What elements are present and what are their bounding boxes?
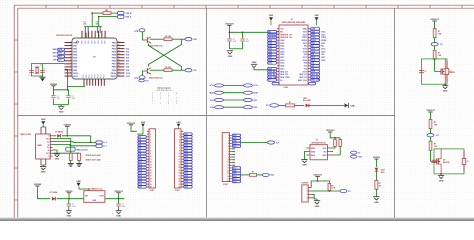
svg-text:7: 7: [228, 151, 229, 153]
svg-text:FB1: FB1: [105, 10, 108, 12]
svg-text:PC5: PC5: [95, 75, 97, 79]
wire loop: [434, 149, 464, 174]
svg-text:DTR RTS -EN IO0: DTR RTS -EN IO0: [157, 90, 172, 92]
svg-text:16: 16: [178, 173, 180, 175]
svg-text:IO22: IO22: [303, 34, 307, 36]
svg-text:GND: GND: [55, 159, 60, 161]
svg-text:SHD_CLK: SHD_CLK: [311, 80, 320, 82]
svg-text:D+: D+: [47, 147, 49, 149]
svg-text:IO?: IO?: [440, 44, 443, 46]
svg-text:C3: C3: [84, 21, 86, 23]
svg-text:IO5: IO5: [304, 54, 307, 56]
svg-text:X?: X?: [40, 65, 42, 67]
svg-text:SHD_D2: SHD_D2: [280, 71, 287, 73]
svg-text:SHD_CLK: SHD_CLK: [298, 80, 308, 82]
svg-text:IO21: IO21: [210, 100, 214, 102]
svg-text:IO23: IO23: [303, 31, 307, 33]
MCU bottom pins: [83, 79, 85, 86]
svg-text:11: 11: [150, 159, 152, 161]
svg-text:GND: GND: [314, 15, 319, 17]
svg-text:GND: GND: [443, 91, 448, 93]
svg-text:12: 12: [227, 165, 229, 167]
svg-text:27: 27: [118, 69, 120, 71]
capacitor C5: [227, 38, 231, 40]
svg-text:18: 18: [178, 178, 180, 180]
svg-text:C5: C5: [233, 39, 235, 41]
svg-text:PA11: PA11: [73, 75, 79, 78]
wire gnd rail: [53, 104, 68, 106]
ground: [373, 196, 379, 198]
svg-text:GND: GND: [76, 181, 81, 183]
svg-text:C2: C2: [72, 96, 74, 98]
ground: [440, 174, 442, 176]
out wire: [105, 198, 125, 200]
net flag IO4: [267, 141, 275, 144]
svg-text:11: 11: [70, 72, 72, 74]
capacitor C7: [68, 199, 70, 204]
svg-text:IO35: IO35: [280, 43, 284, 45]
capacitor C4: [96, 27, 98, 33]
svg-text:10: 10: [178, 156, 180, 158]
load on right edge: [446, 61, 448, 82]
svg-text:IO21: IO21: [253, 100, 257, 102]
wire gnd rail: [229, 48, 242, 50]
svg-text:20: 20: [150, 184, 152, 186]
svg-text:U? AMS1117-3.3: U? AMS1117-3.3: [89, 188, 103, 191]
svg-text:35: 35: [118, 44, 120, 46]
net flag: [262, 173, 269, 176]
svg-text:IO21: IO21: [303, 43, 307, 45]
svg-text:18: 18: [227, 181, 229, 183]
svg-text:R5 12K: R5 12K: [165, 36, 172, 38]
svg-text:12: 12: [70, 75, 72, 77]
svg-text:SENSOR_VN: SENSOR_VN: [280, 37, 292, 39]
crystal Y1: [36, 68, 38, 73]
svg-text:IO21: IO21: [321, 43, 325, 45]
resistor R12: [78, 153, 81, 160]
svg-text:IO33: IO33: [280, 49, 284, 51]
svg-text:17: 17: [227, 179, 229, 181]
svg-text:USB_D-: USB_D-: [125, 17, 132, 19]
svg-text:IO18: IO18: [303, 51, 307, 53]
svg-text:CC1: CC1: [46, 139, 50, 141]
svg-text:D- 2: D- 2: [103, 146, 106, 148]
svg-text:GND: GND: [228, 56, 233, 58]
svg-text:18: 18: [150, 178, 152, 180]
MCU left net flags: [58, 48, 65, 51]
svg-text:32: 32: [118, 54, 120, 56]
svg-text:D? SS54: D? SS54: [50, 191, 57, 194]
resistor R10: [375, 180, 378, 189]
sheet frame: [14, 4, 474, 6]
svg-text:GND: GND: [303, 29, 308, 31]
svg-text:C6: C6: [246, 39, 248, 41]
LED3: [375, 168, 379, 171]
svg-text:CON?: CON?: [223, 184, 228, 186]
svg-text:29: 29: [118, 63, 120, 65]
ground: [66, 210, 72, 212]
LED row: net flag: [270, 104, 279, 107]
svg-text:IO16: IO16: [321, 60, 325, 62]
svg-text:C1: C1: [57, 96, 59, 98]
net flags USB D+ D-: [118, 12, 125, 15]
svg-text:VOUT: VOUT: [99, 196, 103, 198]
svg-text:10uF: 10uF: [233, 41, 237, 43]
svg-text:GND: GND: [315, 206, 320, 208]
svg-text:12: 12: [178, 162, 180, 164]
svg-text:GND: GND: [311, 151, 316, 153]
svg-text:USB-C16-PIN: USB-C16-PIN: [20, 134, 31, 136]
svg-text:CON?: CON?: [175, 190, 180, 192]
svg-text:16: 16: [227, 176, 229, 178]
resistor: [433, 50, 436, 59]
svg-text:GND: GND: [66, 216, 71, 218]
wire 3v3 rail: [228, 25, 230, 38]
net flag EN: [185, 38, 192, 41]
svg-text:IO22: IO22: [321, 34, 325, 36]
svg-text:SDA: SDA: [311, 154, 316, 157]
wire to gnd: [309, 104, 344, 106]
svg-text:5: 5: [228, 146, 229, 148]
resistor: [429, 120, 432, 129]
svg-text:IO25: IO25: [280, 51, 284, 53]
svg-text:15: 15: [150, 170, 152, 172]
svg-text:IO18: IO18: [321, 51, 325, 53]
wires D+/D-: [90, 136, 92, 143]
svg-text:19: 19: [150, 181, 152, 183]
svg-text:IO22: IO22: [253, 107, 257, 109]
svg-text:GND: GND: [350, 105, 355, 107]
svg-text:BSS138: BSS138: [443, 162, 449, 164]
wire VDD top: [92, 12, 103, 14]
svg-text:10: 10: [227, 159, 229, 161]
connector CON2 4P: [302, 185, 308, 202]
svg-text:PC6: PC6: [86, 75, 88, 79]
svg-text:IO6: IO6: [126, 61, 129, 63]
svg-text:20: 20: [178, 184, 180, 186]
ground: [227, 50, 233, 52]
svg-text:21: 21: [150, 187, 152, 189]
net flag right of MCU: [139, 79, 145, 82]
resistor R5: [150, 38, 164, 40]
svg-text:SENSOR_VP: SENSOR_VP: [280, 34, 292, 36]
svg-text:3: 3: [228, 140, 229, 142]
svg-text:PC4: PC4: [103, 75, 105, 79]
svg-text:GND: GND: [302, 165, 307, 167]
svg-text:8: 8: [228, 154, 229, 156]
svg-text:CON?: CON?: [150, 190, 155, 192]
capacitor CL1: [29, 70, 34, 72]
svg-text:CON?4P: CON?4P: [302, 182, 310, 185]
ground: [305, 152, 307, 160]
svg-text:VDD: VDD: [311, 148, 316, 150]
svg-text:IO16: IO16: [303, 60, 307, 62]
svg-text:10: 10: [150, 156, 152, 158]
MOSFET Q: [440, 68, 442, 74]
svg-text:SDA1: SDA1: [253, 92, 258, 95]
svg-text:2: 2: [228, 138, 229, 140]
svg-text:IO17: IO17: [321, 57, 325, 59]
svg-text:D+: D+: [47, 141, 49, 143]
svg-text:11: 11: [179, 159, 181, 161]
MCU U2 GD32F103 QFP: [72, 38, 117, 79]
ground mid: [252, 66, 256, 68]
svg-text:11: 11: [227, 162, 229, 164]
wire pin row to rail: [65, 69, 68, 90]
resistor Ra: [334, 140, 337, 147]
svg-text:IO35: IO35: [270, 175, 274, 177]
svg-text:15: 15: [178, 170, 180, 172]
svg-text:IO26: IO26: [280, 54, 284, 56]
svg-text:PC2: PC2: [92, 75, 94, 79]
ground: [58, 105, 64, 107]
svg-text:IO32: IO32: [280, 46, 284, 48]
svg-text:RXD0: RXD0: [302, 40, 307, 42]
section dividers: [206, 8, 208, 219]
MOSFET Q: [436, 158, 438, 164]
wires: [317, 177, 319, 182]
svg-text:25: 25: [118, 75, 120, 77]
svg-text:6: 6: [228, 149, 229, 151]
connector CON1 18P: [222, 133, 229, 182]
svg-text:IO15: IO15: [303, 71, 307, 73]
svg-text:RXD0: RXD0: [321, 40, 326, 42]
svg-text:IO12: IO12: [280, 63, 284, 65]
svg-text:36: 36: [118, 41, 120, 43]
svg-text:IO23: IO23: [321, 31, 325, 33]
svg-text:IO33: IO33: [233, 146, 237, 148]
ferrite bead FB1: [103, 12, 111, 15]
wire long net: [241, 142, 268, 144]
svg-text:C?: C?: [122, 204, 124, 206]
resistor Rb: [339, 140, 342, 147]
svg-text:IO0: IO0: [304, 66, 307, 68]
svg-text:U?: U?: [316, 140, 318, 142]
svg-text:D+ 2: D+ 2: [103, 142, 107, 144]
svg-text:15: 15: [227, 173, 229, 175]
svg-text:IO10: IO10: [126, 73, 130, 75]
svg-text:IO3: IO3: [126, 51, 129, 53]
transistor Q1: [146, 37, 148, 43]
svg-text:3V3: 3V3: [280, 29, 283, 31]
svg-text:BT0: BT0: [53, 60, 56, 62]
wires pullups: [330, 132, 340, 138]
wire pin2 to flag: [311, 190, 340, 192]
wire: [37, 186, 50, 199]
svg-text:GND: GND: [252, 62, 257, 64]
svg-text:10uF: 10uF: [72, 206, 76, 208]
svg-text:19: 19: [178, 181, 180, 183]
svg-text:IO0: IO0: [194, 70, 197, 72]
ESP32 bottom pads: [272, 82, 279, 85]
sensor U4 AHT20: [310, 145, 327, 160]
svg-text:33: 33: [118, 50, 120, 52]
capacitor: [419, 69, 424, 71]
ground tri 2: [76, 163, 82, 165]
svg-text:0603: 0603: [381, 172, 385, 174]
svg-text:GND: GND: [269, 15, 274, 17]
svg-text:1 GND: 1 GND: [283, 87, 289, 89]
svg-text:Auto program: Auto program: [157, 87, 170, 90]
svg-text:IO17: IO17: [303, 57, 307, 59]
ground: [444, 84, 446, 86]
resistor R9: [328, 183, 331, 190]
svg-text:PC9: PC9: [89, 75, 91, 79]
svg-text:C?: C?: [29, 75, 31, 77]
svg-text:C?: C?: [72, 204, 74, 206]
svg-text:SDA1: SDA1: [209, 92, 214, 95]
svg-text:10uF: 10uF: [122, 206, 126, 208]
ESD array: [66, 147, 75, 151]
svg-text:17: 17: [150, 175, 152, 177]
svg-text:CC2: CC2: [46, 153, 50, 155]
resistor R11: [69, 153, 72, 160]
svg-text:SHD_D1: SHD_D1: [299, 74, 306, 76]
svg-text:GND: GND: [439, 180, 444, 182]
LDO U1 AMS1117-3.3: [84, 191, 105, 203]
svg-text:SHD_D3: SHD_D3: [280, 74, 287, 76]
svg-text:ESP32-WROOM-32E-N16R8: ESP32-WROOM-32E-N16R8: [282, 22, 305, 24]
svg-text:1: 1: [160, 103, 161, 105]
svg-text:BT0: BT0: [58, 60, 61, 62]
svg-text:IO8: IO8: [126, 67, 129, 69]
svg-text:USB1: USB1: [37, 145, 42, 147]
svg-text:13: 13: [227, 168, 229, 170]
svg-text:17: 17: [178, 175, 180, 177]
svg-text:IO?: IO?: [276, 142, 279, 144]
MCU right pins: [117, 42, 125, 44]
svg-text:SCL1: SCL1: [209, 85, 214, 87]
net flags D+ D-: [96, 141, 102, 144]
capacitor CL2: [40, 70, 45, 72]
svg-text:C?: C?: [467, 161, 469, 163]
load on right edge: [463, 151, 465, 172]
svg-text:PC4: PC4: [83, 75, 85, 79]
svg-text:IO?: IO?: [348, 191, 351, 193]
svg-text:IO19: IO19: [303, 49, 307, 51]
svg-text:C?: C?: [44, 69, 46, 71]
resistor R7: [279, 104, 286, 106]
bottom shield pins: [40, 159, 42, 165]
svg-text:SCL1: SCL1: [253, 85, 258, 87]
wire to MCU pin: [43, 63, 65, 65]
svg-text:Blue-0603: Blue-0603: [303, 100, 311, 102]
svg-text:USBLC6-2SC6: USBLC6-2SC6: [76, 149, 88, 151]
svg-text:R?: R?: [252, 172, 254, 174]
svg-text:PB10: PB10: [111, 73, 117, 75]
svg-text:IO2: IO2: [304, 68, 307, 70]
svg-text:10uF: 10uF: [72, 98, 76, 100]
wire loop: [421, 59, 447, 84]
svg-text:9: 9: [228, 157, 229, 159]
svg-text:VDD: VDD: [322, 155, 327, 157]
svg-text:IO19: IO19: [321, 49, 325, 51]
svg-text:GND: GND: [41, 172, 46, 174]
svg-text:IO9: IO9: [126, 70, 129, 72]
VDD5V LED column: [351, 151, 358, 154]
svg-text:SWC: SWC: [52, 53, 57, 55]
svg-text:TXD0: TXD0: [302, 37, 307, 39]
svg-text:16: 16: [150, 173, 152, 175]
svg-text:21: 21: [178, 187, 180, 189]
svg-text:31: 31: [118, 57, 120, 59]
svg-text:1: 1: [228, 135, 229, 137]
svg-text:GND: GND: [59, 112, 64, 114]
ESP32 pins: [277, 28, 279, 30]
svg-text:0: 0: [168, 103, 169, 105]
svg-text:1: 1: [176, 103, 177, 105]
svg-text:IO22: IO22: [210, 107, 214, 109]
svg-text:12: 12: [150, 162, 152, 164]
net flag: [427, 134, 434, 137]
svg-text:IO11: IO11: [126, 76, 130, 78]
wires to pins: [331, 147, 335, 149]
ground: [311, 194, 317, 200]
svg-text:10: 10: [70, 69, 72, 71]
svg-text:GD32F103C8T6: GD32F103C8T6: [56, 35, 73, 37]
svg-text:SHD_CMD: SHD_CMD: [280, 77, 290, 79]
net flag: [431, 43, 438, 46]
wire caps to IC: [86, 33, 88, 38]
svg-text:IO12: IO12: [268, 63, 272, 65]
ground tri 1: [68, 163, 74, 165]
MCU top pins: [81, 31, 83, 38]
svg-text:D? SB240: D? SB240: [55, 131, 63, 134]
USB-C connector USB1: [36, 134, 51, 159]
svg-text:PB11: PB11: [111, 76, 117, 78]
svg-text:28: 28: [118, 66, 120, 68]
svg-text:30: 30: [118, 60, 120, 62]
svg-text:C?: C?: [424, 71, 426, 73]
svg-text:GND: GND: [41, 119, 46, 121]
ground below crystal: [42, 76, 44, 77]
svg-text:R?: R?: [289, 102, 291, 104]
svg-text:PC8: PC8: [98, 75, 100, 79]
svg-text:IO?: IO?: [266, 105, 269, 107]
capacitor C2: [67, 90, 69, 96]
capacitor: [432, 159, 437, 161]
CC resistors: [53, 139, 71, 154]
resistor R6: [150, 69, 164, 71]
svg-text:IO20: IO20: [139, 187, 143, 189]
svg-text:26: 26: [118, 72, 120, 74]
svg-text:GND: GND: [116, 216, 121, 218]
resistor R8 row: [241, 174, 250, 176]
MCU left pins: [65, 42, 73, 44]
svg-text:IO17: IO17: [145, 80, 149, 82]
svg-text:USB_D+: USB_D+: [125, 13, 132, 15]
shield pins: [40, 127, 42, 134]
svg-text:IO?: IO?: [436, 135, 439, 137]
ground bottom: [40, 166, 46, 168]
svg-text:PC1: PC1: [100, 75, 102, 79]
ground right arrow: [345, 103, 349, 107]
svg-text:DTR: DTR: [134, 31, 139, 33]
svg-text:IO13: IO13: [280, 68, 284, 70]
svg-text:R6 12K: R6 12K: [165, 67, 172, 69]
svg-text:8050/J3Y(SOT-23): 8050/J3Y(SOT-23): [149, 77, 163, 79]
svg-text:IO5: IO5: [126, 58, 129, 60]
svg-text:IO13: IO13: [233, 181, 237, 183]
ESP32 module U3: [279, 25, 308, 85]
svg-text:PA10: PA10: [73, 72, 79, 75]
capacitor C1: [52, 90, 54, 96]
svg-text:C?: C?: [450, 71, 452, 73]
capacitor C6: [242, 32, 244, 38]
svg-text:13: 13: [178, 164, 180, 166]
ground mid: [53, 150, 57, 154]
svg-text:13: 13: [150, 164, 152, 166]
